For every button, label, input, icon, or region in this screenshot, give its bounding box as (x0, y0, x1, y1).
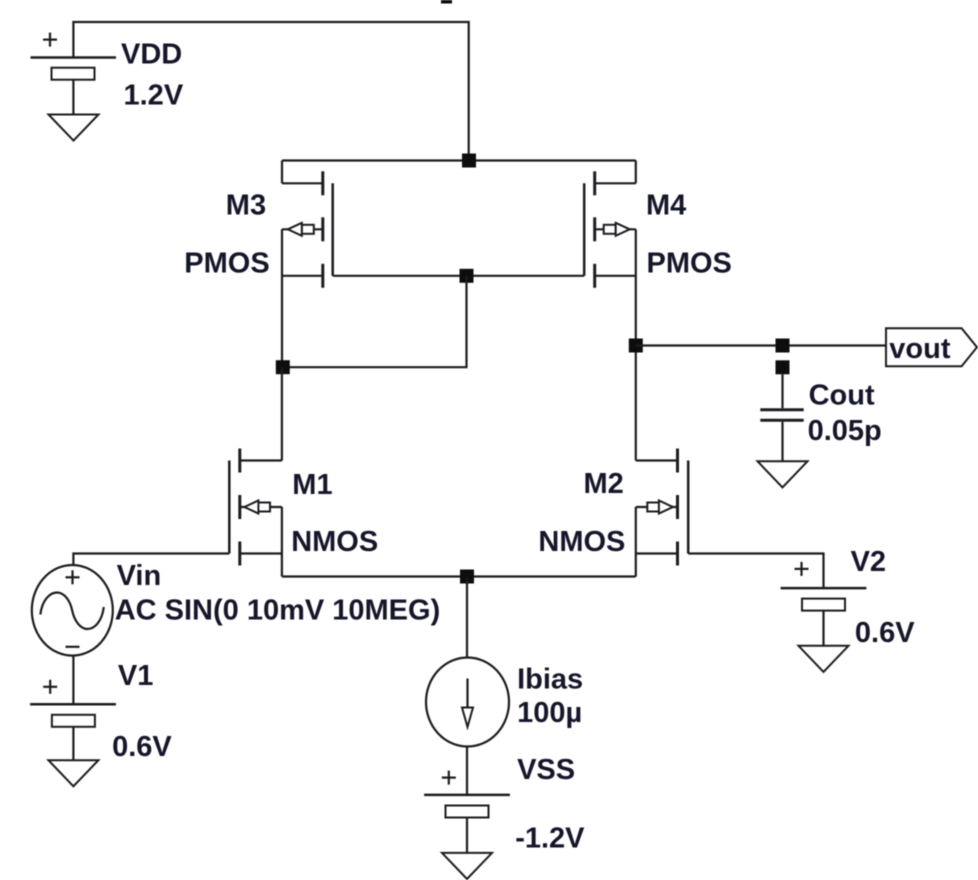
node junction gate rail (460, 269, 474, 283)
ground (VSS) (442, 853, 492, 879)
svg-text:VDD: VDD (121, 39, 182, 71)
svg-text:0.05p: 0.05p (808, 415, 882, 447)
wire M1 gate to Vin (73, 554, 229, 566)
port vout (886, 328, 977, 366)
wire VDD top (73, 22, 468, 161)
svg-text:V2: V2 (851, 546, 886, 578)
wire diode connection (283, 276, 467, 367)
wire Ibias to VSS (466, 746, 468, 795)
svg-text:V1: V1 (118, 660, 153, 692)
voltage source Vin (sine source) (32, 565, 113, 656)
svg-text:0.6V: 0.6V (112, 731, 172, 763)
svg-text:NMOS: NMOS (538, 526, 625, 558)
node junction Cout pin (776, 360, 790, 374)
svg-text:VSS: VSS (517, 754, 575, 786)
node junction output (629, 339, 643, 353)
voltage source V1 (battery) (30, 680, 116, 760)
node junction VDD rail (462, 154, 476, 168)
ground (V2) (799, 646, 849, 672)
wire M2 gate to V2 (688, 554, 823, 589)
svg-text:M4: M4 (646, 190, 686, 222)
wire top rail (282, 159, 636, 161)
transistor M2 (NMOS) (636, 449, 688, 577)
wire output (636, 344, 886, 346)
svg-text:M1: M1 (292, 469, 332, 501)
wire Vin to V1 (72, 656, 74, 705)
svg-text:M3: M3 (226, 190, 266, 222)
svg-text:Vin: Vin (117, 560, 162, 592)
node junction M3 drain (276, 360, 290, 374)
ground (VDD source) (49, 115, 99, 141)
cropped text fragment at top edge (441, 0, 452, 4)
svg-text:Ibias: Ibias (517, 664, 583, 696)
svg-text:AC SIN(0 10mV 10MEG): AC SIN(0 10mV 10MEG) (115, 595, 441, 627)
svg-text:-1.2V: -1.2V (515, 823, 585, 855)
svg-text:PMOS: PMOS (184, 248, 269, 280)
voltage source VDD (battery) (31, 33, 117, 115)
transistor M1 (NMOS) (229, 367, 282, 576)
svg-text:0.6V: 0.6V (855, 617, 915, 649)
capacitor Cout (760, 374, 803, 461)
ground (V1) (48, 760, 98, 786)
wire tail to Ibias (466, 577, 468, 659)
svg-text:1.2V: 1.2V (124, 80, 184, 112)
current source Ibias (426, 658, 509, 747)
ground (Cout) (758, 461, 808, 487)
wire gate rail M3-M4 (333, 275, 585, 277)
voltage source VSS (battery) (424, 771, 510, 853)
node junction tail (460, 570, 474, 584)
svg-text:NMOS: NMOS (291, 526, 378, 558)
svg-text:vout: vout (889, 333, 951, 365)
wire tail (282, 575, 636, 577)
svg-text:100µ: 100µ (517, 697, 582, 729)
transistor M3 (PMOS) (282, 161, 333, 368)
node junction Cout tap (776, 339, 790, 353)
svg-text:M2: M2 (584, 468, 624, 500)
svg-text:PMOS: PMOS (647, 248, 732, 280)
transistor M4 (PMOS) (584, 161, 636, 461)
voltage source V2 (battery) (781, 562, 867, 646)
svg-text:Cout: Cout (809, 380, 875, 412)
